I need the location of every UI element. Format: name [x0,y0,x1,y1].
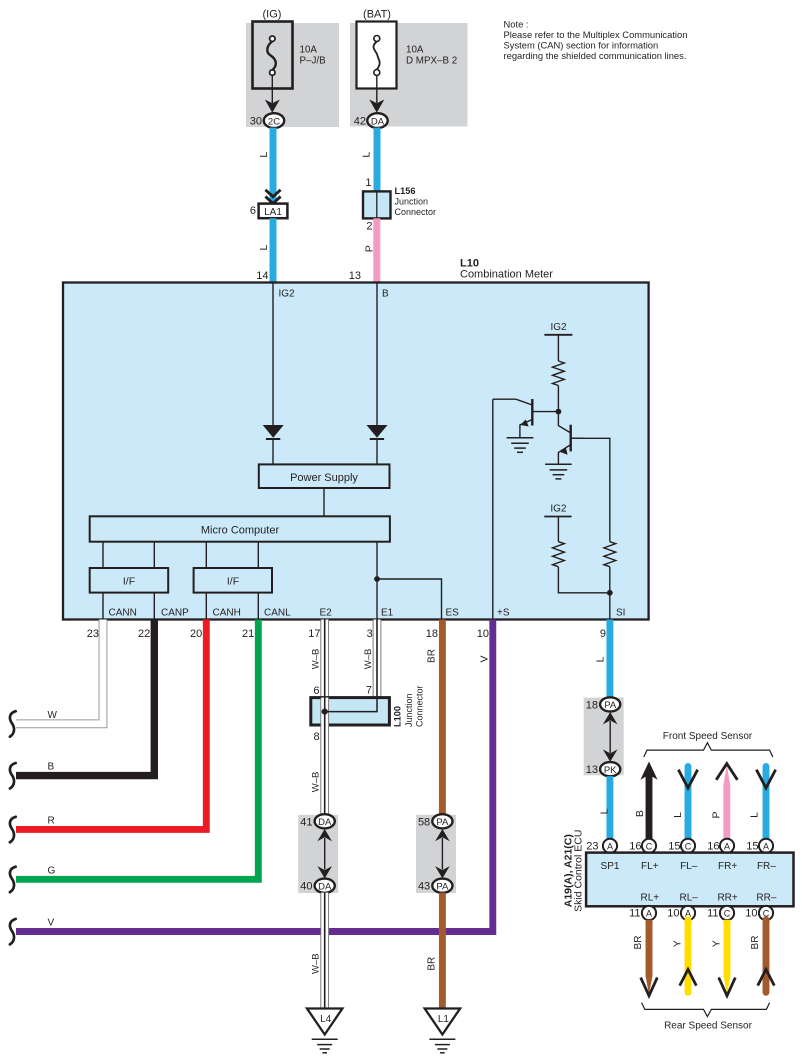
svg-text:18: 18 [586,699,598,711]
wire micro computer to I/F 2 (left) [205,542,207,568]
wire I/F 1 to pin CANN [102,593,104,620]
connector circle C (FL-) [681,839,695,853]
svg-text:43: 43 [418,881,430,893]
power rail IG2 (lower) [544,504,571,517]
svg-text:16: 16 [629,840,641,852]
svg-text:11: 11 [629,908,640,920]
svg-text:R: R [48,816,55,827]
svg-text:A: A [607,842,613,852]
svg-text:L: L [672,812,684,818]
svg-text:10: 10 [745,908,757,920]
svg-text:23: 23 [87,628,99,640]
svg-text:2: 2 [366,221,372,233]
resistor R3 [604,542,616,567]
svg-text:E2: E2 [320,608,333,619]
wire P to front right speed sensor (pink arrow up) [716,764,737,839]
svg-text:FL+: FL+ [641,861,659,872]
svg-text:W–B: W–B [311,649,322,670]
svg-text:42: 42 [354,116,366,128]
svg-text:ES: ES [446,608,460,619]
svg-text:15: 15 [668,840,680,852]
svg-text:23: 23 [586,840,598,852]
svg-text:W–B: W–B [311,772,322,793]
svg-text:W–B: W–B [311,953,322,974]
arrow into connector 2C [265,100,280,113]
svg-text:Y: Y [710,940,722,947]
svg-text:Power Supply: Power Supply [290,472,358,484]
combination meter L10 box [63,283,649,620]
connector oval 18 PA [600,697,620,711]
svg-text:41: 41 [300,816,312,828]
svg-text:L4: L4 [320,1014,332,1025]
connector pair box ES column [416,815,456,893]
svg-text:3: 3 [367,628,373,640]
svg-text:P: P [710,811,722,818]
wire power supply to micro computer [323,488,325,516]
svg-text:58: 58 [418,816,430,828]
wire L from connector 13 PK to pin SP1 (blue) [606,776,613,839]
wire L to front right speed sensor (blue, arrow down) [756,767,775,840]
connector oval DA [367,113,387,128]
diode D1 [263,425,284,439]
svg-text:Connector: Connector [395,207,437,217]
svg-text:B: B [48,762,55,773]
transistor Q2 [559,425,583,456]
wire V from pin +S (violet) [16,620,493,932]
svg-text:P: P [364,245,376,252]
svg-text:L: L [749,812,761,818]
wire micro computer to I/F 1 (left) [102,542,104,568]
wire BR from connector 43 PA to ground L1 (brown) [439,893,446,1010]
connector circle C (FL+) [642,839,656,853]
connector circle A (RL+) [642,906,656,920]
svg-text:C: C [646,842,653,852]
svg-text:L156: L156 [395,186,416,196]
svg-text:13: 13 [586,764,598,776]
svg-text:PK: PK [604,765,617,776]
fuse block background D MPX-B 2 [350,23,468,127]
svg-text:BR: BR [750,936,761,950]
fuse F1 10A P-J/B [253,22,293,89]
node N1 [556,409,562,415]
svg-text:IG2: IG2 [279,289,296,300]
connector oval 43 PA [432,879,452,893]
wire fuse F2 to connector DA [376,76,378,104]
svg-text:B: B [382,289,389,300]
svg-text:10A: 10A [300,45,318,56]
ground G1 [507,438,534,453]
continuation squiggle W [10,711,16,737]
I/F block 1 [90,568,169,593]
wire node to pin SI [609,593,611,620]
ground L4 [307,1009,342,1053]
wire L from DA to L156 (blue) [374,128,381,192]
svg-text:7: 7 [366,685,372,697]
wire P from L156 to pin 13 (pink) [373,218,380,282]
wire G from pin 21 (green) [16,620,258,880]
wire Y to rear left speed sensor (yellow, arrow up) [680,920,697,993]
svg-text:L: L [258,245,270,251]
svg-text:SP1: SP1 [601,861,620,872]
wire micro computer to I/F 1 (right) [153,542,155,568]
wire L to front left speed sensor (blue, arrow down) [678,767,697,840]
connector oval 2C [264,113,284,128]
wire +S internal [492,399,494,619]
svg-text:L1: L1 [438,1014,450,1025]
diode D2 [367,425,388,439]
svg-text:9: 9 [600,628,606,640]
arrow pair E2 column [317,829,332,878]
svg-text:17: 17 [308,628,320,640]
svg-text:+S: +S [497,608,510,619]
connector circle A (FR+) [720,839,734,853]
svg-text:6: 6 [250,205,256,217]
wire W from pin 23 (white) [16,620,103,724]
svg-text:I/F: I/F [227,576,239,588]
svg-text:E1: E1 [381,608,394,619]
svg-text:regarding the shielded communi: regarding the shielded communication lin… [504,50,687,61]
fuse F2 10A D MPX-B 2 [357,22,397,89]
svg-text:20: 20 [190,628,202,640]
power rail IG2 (upper) [544,322,572,335]
svg-text:8: 8 [313,731,319,743]
wire I/F 1 to pin CANP [153,593,155,620]
wire resistor R1 to node N1 [557,386,559,412]
wire L from pin SI to connector 18 PA (blue) [606,620,613,698]
connector circle C (RR-) [759,906,773,920]
svg-text:W: W [48,710,58,721]
svg-text:CANH: CANH [213,608,241,619]
junction connector L100 [311,698,390,725]
svg-text:BR: BR [633,936,644,950]
svg-text:L: L [594,656,606,662]
svg-text:RR–: RR– [756,893,776,904]
wire resistor R3 to SI node [609,567,611,593]
transistor Q1 [516,399,532,427]
svg-text:IG2: IG2 [550,322,567,333]
svg-text:L: L [598,808,610,814]
note text [504,19,688,62]
wire IG2 rail to resistor R1 [557,335,559,361]
svg-text:11: 11 [707,908,718,920]
svg-text:CANN: CANN [109,608,137,619]
svg-text:2C: 2C [268,116,280,127]
svg-text:PA: PA [604,700,617,711]
junction connector L156 [363,191,391,218]
svg-text:Junction: Junction [395,197,429,207]
svg-text:FR+: FR+ [718,861,737,872]
svg-text:14: 14 [256,270,268,282]
connector circle A (SP1) [603,839,617,853]
svg-text:A: A [646,909,652,919]
svg-text:Please refer to the Multiplex: Please refer to the Multiplex Communicat… [504,29,688,40]
svg-text:W–B: W–B [363,649,374,670]
svg-text:PA: PA [436,881,449,892]
svg-text:6: 6 [313,685,319,697]
svg-text:21: 21 [242,628,254,640]
wire Q2 collector to SI branch [571,438,610,541]
svg-text:13: 13 [349,270,361,282]
svg-text:DA: DA [318,881,332,892]
wire W-B from pin E1 to L100 pin 7 [373,620,382,698]
svg-text:DA: DA [318,817,332,828]
svg-text:L: L [360,152,372,158]
wire E1 branch inside L100 [325,699,377,712]
node inside L100 [322,709,328,715]
connector pair box SI column [584,698,624,776]
connector oval 40 DA [315,879,335,893]
wire resistor R2 to SI node [558,567,609,593]
svg-text:L100: L100 [392,706,402,727]
svg-text:Micro Computer: Micro Computer [201,525,280,537]
wire Q2 emitter to ground [557,452,559,464]
ground L1 [425,1009,460,1053]
svg-text:Junction: Junction [404,693,414,727]
wire B to diode D2 [376,283,378,425]
svg-text:40: 40 [300,881,312,893]
brace front speed sensor [644,743,773,757]
svg-text:CANP: CANP [161,608,189,619]
wire node N1 to Q2 base [558,412,570,433]
svg-text:16: 16 [707,840,719,852]
svg-text:SI: SI [616,608,625,619]
connector circle C (RR+) [720,906,734,920]
svg-text:30: 30 [250,116,262,128]
micro computer block [90,516,390,541]
wire Q1 emitter to ground [519,425,521,438]
svg-text:(BAT): (BAT) [363,9,391,21]
power supply block [259,464,390,488]
wire I/F 2 to pin CANL [257,593,259,620]
svg-text:C: C [724,909,731,919]
ground G2 [545,464,572,479]
connector circle A (RL-) [681,906,695,920]
wire Y to rear right speed sensor (yellow arrow down) [719,920,736,996]
svg-text:CANL: CANL [264,608,291,619]
svg-text:Skid Control ECU: Skid Control ECU [573,830,585,912]
svg-text:B: B [634,810,646,817]
wire diode D2 to power supply [376,439,378,464]
svg-text:L: L [258,152,270,158]
wire micro computer to pin E1 [376,542,378,620]
svg-text:A: A [763,842,769,852]
svg-text:15: 15 [746,840,758,852]
connector oval 41 DA [315,814,335,828]
wire I/F 2 to pin CANH [205,593,207,620]
wire W-B from L100 pin 8 to connector 41 DA [320,725,329,815]
svg-text:Front Speed Sensor: Front Speed Sensor [663,731,753,742]
node E1/ES junction [374,576,380,582]
wire junction to pin ES [377,579,442,620]
wire B to front left speed sensor (black arrow up) [640,762,657,840]
wire B from pin 22 (black) [16,620,154,776]
wire W-B from pin E2 to L100 pin 6 [320,620,329,698]
wire BR from pin ES to connector 58 PA (brown) [439,620,446,816]
svg-text:Y: Y [672,940,684,947]
svg-text:FL–: FL– [680,861,698,872]
svg-text:18: 18 [426,628,438,640]
svg-text:10: 10 [667,908,679,920]
wire BR to rear right speed sensor (brown, arrow up) [758,920,775,993]
wire micro computer to I/F 2 (right) [257,542,259,568]
continuation squiggle R [10,817,16,843]
svg-text:10: 10 [477,628,489,640]
svg-text:IG2: IG2 [550,504,567,515]
svg-text:FR–: FR– [757,861,776,872]
svg-text:RL–: RL– [680,893,699,904]
connector pair box E2 column [298,815,338,893]
wire diode D1 to power supply [272,439,274,464]
wire Q1 collector to +S rail [493,398,516,400]
svg-text:DA: DA [371,116,385,127]
wire W-B from connector 40 DA to ground L4 [320,893,329,1010]
continuation squiggle B [10,763,16,789]
svg-text:RL+: RL+ [640,893,659,904]
wire IG2 rail to resistor R2 [557,517,559,542]
shield arrows into LA1 [265,190,280,197]
skid control ECU box [586,853,793,907]
arrow pair SI column [603,712,618,762]
svg-text:RR+: RR+ [717,893,737,904]
arrow into connector DA [369,100,384,113]
svg-text:LA1: LA1 [264,207,282,218]
connector oval 58 PA [432,814,452,828]
wire R from pin 20 (red) [16,620,206,830]
svg-text:Combination Meter: Combination Meter [460,269,553,281]
wire W-B through L100 [320,698,329,725]
svg-text:V: V [478,655,490,662]
node SI junction [607,590,613,596]
svg-text:BR: BR [426,649,437,663]
resistor R1 [553,361,565,386]
wire L from LA1 to pin 14 (blue) [270,218,277,282]
svg-text:V: V [48,918,55,929]
svg-text:(IG): (IG) [263,9,282,21]
svg-text:BR: BR [426,957,437,971]
continuation squiggle G [10,867,16,893]
svg-text:1: 1 [365,177,371,189]
svg-text:PA: PA [436,817,449,828]
connector oval 13 PK [600,762,620,776]
wire fuse F1 to connector 2C [271,76,273,104]
svg-text:P–J/B: P–J/B [300,56,327,67]
fuse block background P-J/B [246,23,339,127]
svg-text:10A: 10A [406,45,424,56]
svg-text:D MPX–B 2: D MPX–B 2 [406,56,457,67]
svg-text:22: 22 [138,628,150,640]
svg-text:Connector: Connector [415,685,425,727]
I/F block 2 [194,568,272,593]
resistor R2 [553,542,565,567]
brace rear speed sensor [642,1003,770,1017]
wire L from 2C to LA1 (blue) [270,128,277,204]
wire BR to rear left speed sensor (brown arrow down) [641,920,658,996]
wire IG2 to diode D1 [272,283,274,425]
svg-text:Note :: Note : [504,19,529,30]
continuation squiggle V [10,919,16,945]
svg-text:G: G [48,866,56,877]
svg-text:A: A [724,842,730,852]
connector LA1 [259,204,288,219]
arrow pair ES column [435,829,450,878]
svg-text:System (CAN) section for infor: System (CAN) section for information [504,40,659,51]
svg-text:I/F: I/F [123,576,135,588]
wire node N1 to Q1 base [533,411,558,413]
svg-text:Rear Speed Sensor: Rear Speed Sensor [664,1021,753,1032]
svg-text:C: C [685,842,692,852]
connector circle A (FR-) [759,839,773,853]
